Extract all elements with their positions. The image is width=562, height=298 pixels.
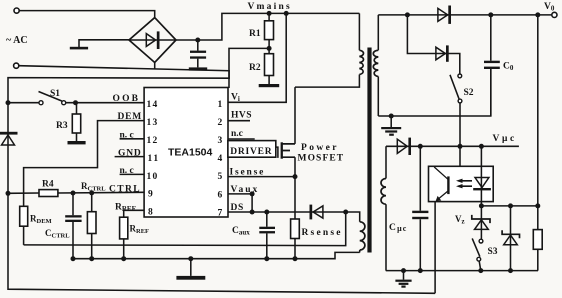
label n.c pin12 (120, 131, 145, 141)
pin 9 number (148, 190, 153, 200)
label HVS pin2 (228, 111, 252, 121)
arrows opto light (456, 179, 472, 189)
rail secondary ground (386, 270, 538, 272)
label OOB pin14 (113, 94, 141, 104)
switch S2 (450, 74, 474, 103)
rail analog ground (73, 252, 360, 258)
pin 1 number (218, 100, 223, 110)
node S2-opto rail (458, 144, 463, 149)
label n.c pin10 (120, 166, 145, 176)
svg-text:Rsense: Rsense (302, 228, 343, 238)
node Vmains Vi riser (284, 11, 289, 16)
pin 10 number (147, 172, 159, 182)
resistor Rsense (291, 177, 343, 259)
DRIVER box pin4 (228, 141, 276, 158)
wire R1R2 node to pin1 area (229, 48, 269, 88)
pin 3 number (218, 136, 223, 146)
svg-text:9: 9 (148, 190, 153, 200)
winding W1 primary (359, 13, 363, 74)
resistor R1 (249, 13, 274, 48)
wire AC bottom to jog (8, 66, 229, 103)
svg-text:OOB: OOB (113, 94, 141, 104)
AC terminal top (14, 8, 19, 13)
ground secondary bottom (earth) (395, 271, 411, 288)
svg-text:5: 5 (218, 172, 223, 182)
svg-text:Cμc: Cμc (389, 223, 408, 233)
diode D1 output (438, 6, 451, 24)
label Vuc (493, 134, 517, 144)
label Vz (455, 214, 465, 226)
pin 4 number (218, 154, 223, 164)
wire Vmains riser to Vi pin (228, 13, 286, 102)
svg-text:S1: S1 (50, 89, 60, 99)
svg-text:R2: R2 (249, 63, 261, 73)
wire feedback node line (481, 205, 537, 207)
node Vaux-DS link top (250, 191, 255, 196)
node D2 branch (405, 12, 410, 17)
svg-text:Vμc: Vμc (493, 134, 517, 144)
resistor RREF (120, 217, 149, 239)
wire primary bottom to drain (295, 75, 359, 88)
capacitor C0 (484, 15, 514, 116)
winding W4 secondary aux (381, 146, 386, 270)
terminal V0 (544, 2, 557, 18)
switch S3 (472, 238, 498, 261)
node R5 top (535, 203, 540, 208)
node CCTRL bottom (71, 256, 76, 261)
pin 8 number (148, 208, 153, 218)
winding W2 secondary (373, 15, 378, 116)
ground bar below R2 (259, 84, 280, 87)
pin 13 number (147, 118, 159, 128)
node CTRL left (6, 191, 11, 196)
resistor R3 (56, 103, 81, 141)
node MOSFET source Isense (293, 174, 298, 179)
svg-text:HVS: HVS (231, 111, 252, 121)
svg-text:8: 8 (148, 208, 153, 218)
svg-text:1: 1 (218, 100, 223, 110)
wire opto emitter to primary return (434, 202, 436, 294)
wire Vuc rail (386, 145, 519, 147)
bridge rectifier diamond (129, 18, 176, 63)
node Cuc top (418, 144, 423, 149)
wire left vertical to bottom rail (8, 193, 435, 293)
wire Vaux to DS link (251, 194, 253, 212)
transistor Q1 power MOSFET (276, 87, 295, 177)
zener D6 (502, 206, 519, 271)
wire bridge bottom stub (154, 63, 156, 70)
svg-text:Power: Power (301, 143, 339, 153)
node secondary ground (389, 114, 394, 119)
wire DS pin7 to diode (228, 211, 346, 213)
svg-text:11: 11 (148, 154, 160, 164)
resistor R4 (39, 180, 58, 197)
transistor opto photo (434, 167, 449, 201)
node R3 top (73, 100, 78, 105)
svg-text:6: 6 (218, 191, 223, 201)
switch S1 (39, 89, 66, 105)
wire RREF pin8 (124, 210, 144, 258)
node Cuc bottom (418, 268, 423, 273)
label RREF pin8 (115, 203, 136, 214)
wire DEM sense line (24, 212, 346, 246)
svg-text:C0: C0 (503, 62, 514, 73)
wire S2 to Vuc rail (459, 103, 461, 146)
node CCTRL top (71, 191, 76, 196)
svg-text:MOSFET: MOSFET (298, 154, 345, 164)
svg-text:RREF: RREF (115, 203, 136, 214)
wire left node to S1 (8, 102, 39, 104)
resistor RCTRL (81, 181, 106, 259)
wire opto collector (459, 146, 461, 166)
capacitor Caux (232, 212, 275, 259)
resistor R5 (533, 206, 542, 271)
label GND pin11 (115, 149, 145, 159)
diode D5 DS-winding (310, 205, 323, 220)
capacitor bulk (bridge output) (190, 40, 206, 67)
wire junction to winding top (346, 212, 360, 222)
node V0 right riser (535, 12, 540, 17)
node RCTRL bottom (89, 256, 94, 261)
svg-text:14: 14 (147, 100, 159, 110)
ground primary T (176, 259, 205, 280)
pin 7 number (218, 209, 223, 219)
svg-text:R3: R3 (56, 121, 68, 131)
zener Vz (472, 206, 490, 239)
node DS winding junction (343, 210, 348, 215)
svg-text:12: 12 (147, 136, 159, 146)
resistor RDEM (20, 206, 52, 245)
svg-text:~ AC: ~ AC (6, 35, 28, 46)
svg-text:13: 13 (147, 118, 159, 128)
svg-text:Caux: Caux (232, 226, 250, 237)
wire V0 rail (378, 14, 551, 16)
label Vaux pin6 (231, 185, 260, 195)
LED opto (473, 146, 491, 206)
node zener2 bottom (508, 268, 513, 273)
svg-text:TEA1504: TEA1504 (168, 147, 213, 159)
node S1 left (6, 100, 11, 105)
label ~AC (6, 35, 28, 46)
node RREF bottom (121, 256, 126, 261)
node C0 top (488, 12, 493, 17)
label DEM pin13 (118, 112, 143, 122)
label Power MOSFET (298, 143, 345, 164)
svg-text:7: 7 (218, 209, 223, 219)
label DS pin7 (231, 203, 244, 213)
wire CTRL line (8, 192, 144, 193)
svg-text:S3: S3 (488, 247, 498, 257)
wire Isense pin5 to MOSFET source (228, 176, 296, 178)
diode D3 Vuc (397, 138, 411, 155)
wire DEM pin13 to RDEM (24, 121, 145, 207)
ground bar below R3 (68, 141, 86, 144)
capacitor Cuc (389, 146, 428, 270)
node Vaux-DS link bottom (250, 210, 255, 215)
svg-text:3: 3 (218, 136, 223, 146)
svg-text:10: 10 (147, 172, 159, 182)
label Vi pin1 (231, 93, 240, 104)
ground bar below bulk cap (189, 67, 207, 70)
node Vmains R1 (267, 11, 272, 16)
optocoupler U2 box (429, 166, 494, 201)
AC terminal bottom (14, 63, 19, 68)
svg-text:S2: S2 (464, 88, 474, 98)
label n.c pin3 (228, 129, 255, 139)
pin 12 number (147, 136, 159, 146)
wire V0 riser to feedback node (537, 15, 539, 206)
svg-text:2: 2 (218, 118, 223, 128)
winding W3 primary aux (360, 222, 365, 253)
node Caux bottom (264, 256, 269, 261)
svg-text:R4: R4 (42, 180, 54, 190)
node Rsense bottom (293, 256, 298, 261)
resistor R2 (249, 48, 274, 84)
wire bridge+ to Vmains riser (176, 13, 359, 40)
node R1 R2 (267, 46, 272, 51)
node S3 bottom (478, 268, 483, 273)
ground secondary top (earth) (381, 116, 401, 136)
pin 6 number (218, 191, 223, 201)
node earth2 (401, 268, 406, 273)
bridge inner diode (129, 31, 176, 49)
label CTRL pin9 (109, 185, 141, 195)
svg-text:Vmains: Vmains (248, 2, 292, 12)
wire AC top to bridge (19, 11, 155, 18)
node zener2 top (508, 203, 513, 208)
pin 11 number (148, 154, 160, 164)
ground at bridge left (70, 40, 129, 50)
capacitor CCTRL (45, 193, 82, 259)
node LED anode rail (479, 144, 484, 149)
wire Vaux pin6 (228, 193, 252, 195)
svg-text:Vi: Vi (231, 93, 240, 104)
label Vmains (248, 2, 292, 12)
node LED cathode (479, 203, 484, 208)
node ground stub (188, 256, 193, 261)
wire D2 branch (407, 15, 459, 74)
diode D2 switched output (436, 45, 449, 61)
node RCTRL top (89, 190, 94, 195)
diode D4 left feedback (0, 103, 18, 194)
node bridge cap (195, 38, 200, 43)
svg-text:n.c: n.c (231, 129, 243, 139)
wire secondary bottom line (378, 69, 491, 116)
pin 14 number (147, 100, 159, 110)
svg-text:4: 4 (218, 154, 223, 164)
label Isense pin5 (230, 168, 266, 178)
wire S1 to OOB pin14 (66, 102, 144, 104)
svg-text:DRIVER: DRIVER (230, 147, 272, 157)
svg-text:V0: V0 (544, 2, 555, 13)
svg-text:R1: R1 (249, 29, 261, 39)
node Caux top (264, 210, 269, 215)
pin 2 number (218, 118, 223, 128)
pin 5 number (218, 172, 223, 182)
wire S3 to rail (479, 261, 481, 271)
transformer core (367, 48, 371, 253)
IC U1 TEA1504 body (144, 88, 228, 218)
